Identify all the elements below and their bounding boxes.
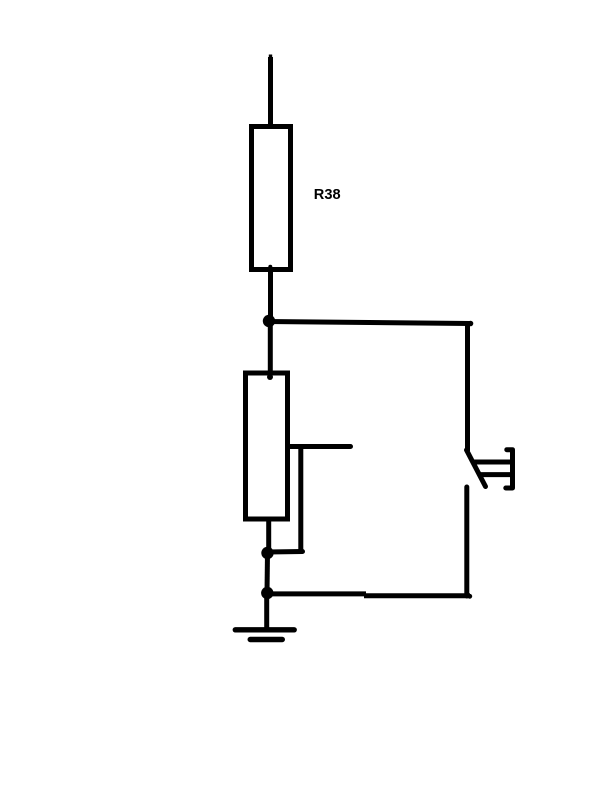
switch S1 actuator bar lower: [480, 472, 513, 477]
node B junction dot: [261, 547, 273, 559]
wire node C to right branch bottom (right segment): [364, 593, 470, 598]
wire node A down into potentiometer: [268, 321, 273, 374]
wire node C to right branch bottom (left segment): [267, 591, 366, 596]
wire R38 bottom to node A: [268, 269, 273, 322]
wire node B down to node C: [265, 553, 271, 593]
wire right branch lower vertical: [464, 487, 469, 596]
svg-text:R38: R38: [314, 187, 341, 203]
ground bar 1: [235, 627, 294, 632]
wire right branch vertical down to switch: [465, 322, 470, 451]
wire wiper tap down leg: [298, 449, 303, 550]
wire node C down to ground: [264, 593, 269, 629]
ground bar 2: [250, 637, 282, 642]
node at potentiometer top pin: [267, 374, 273, 380]
potentiometer body: [246, 373, 288, 519]
wire top lead into R38: [268, 57, 273, 126]
wire node A to right (to switch branch): [267, 322, 470, 324]
switch S1 blade (diagonal): [467, 450, 486, 487]
switch S1 actuator bar upper: [473, 460, 513, 465]
resistor R38: [252, 127, 291, 270]
wire pot bottom to node B: [266, 519, 271, 553]
node C junction dot: [261, 587, 273, 599]
node A junction dot: [263, 315, 275, 327]
switch S1 bracket: [506, 450, 513, 488]
wire wiper tap horizontal: [286, 444, 351, 449]
wire node B to wiper leg: [268, 549, 303, 555]
